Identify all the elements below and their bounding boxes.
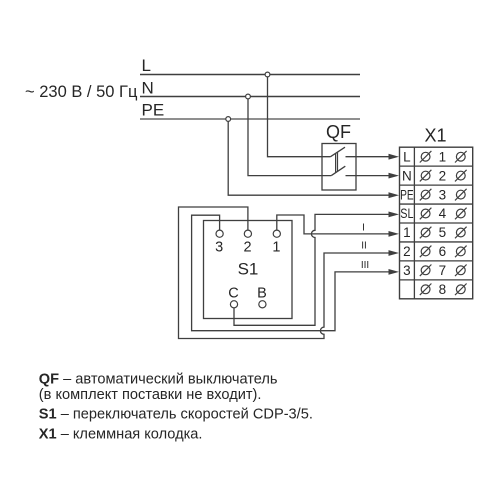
wire from N node to QF pole 2 input xyxy=(248,97,331,176)
legend line QF continuation xyxy=(39,387,262,403)
legend line S1 xyxy=(39,407,313,423)
X1 screw terminals row 3 xyxy=(420,187,467,202)
S1 terminal pin 3 xyxy=(215,230,223,255)
svg-text:B: B xyxy=(257,286,267,302)
svg-text:PE: PE xyxy=(400,187,414,202)
S1 terminal pin B xyxy=(257,286,267,308)
svg-text:L: L xyxy=(142,56,151,75)
wire QF pole 1 output to X1 terminal 1 xyxy=(346,156,391,158)
svg-text:3: 3 xyxy=(215,239,223,255)
svg-text:2: 2 xyxy=(439,168,447,183)
wire PE to X1 terminal 3 xyxy=(228,119,390,195)
switch S1 label xyxy=(238,260,259,279)
svg-text:2: 2 xyxy=(403,244,411,259)
svg-text:5: 5 xyxy=(439,225,447,240)
node on line N xyxy=(246,94,251,99)
svg-text:C: C xyxy=(228,286,238,302)
terminal block X1 frame xyxy=(400,147,473,299)
legend line X1 xyxy=(39,426,203,442)
X1 screw terminals row 8 xyxy=(420,282,467,297)
line N bus wire xyxy=(140,96,360,98)
line L bus wire xyxy=(140,74,360,76)
S1 terminal pin 1 xyxy=(272,230,280,255)
breaker QF linkage bar xyxy=(336,152,338,173)
X1 row labels L N PE SL 1 2 3 xyxy=(400,149,414,278)
X1 screw terminals row 7 xyxy=(420,263,467,278)
node on line PE xyxy=(226,117,231,122)
svg-text:1: 1 xyxy=(272,239,280,255)
svg-text:SL: SL xyxy=(400,206,414,221)
line PE label xyxy=(142,101,165,120)
svg-text:1: 1 xyxy=(439,149,447,164)
arrow into X1 row 1 xyxy=(389,231,400,237)
svg-text:III: III xyxy=(361,260,369,271)
X1 screw terminals row 1 xyxy=(420,149,467,164)
terminal block X1 label xyxy=(424,126,446,146)
svg-text:(в комплект поставки не входит: (в комплект поставки не входит). xyxy=(39,387,262,403)
svg-text:~ 230 В / 50 Гц: ~ 230 В / 50 Гц xyxy=(25,83,138,101)
svg-text:II: II xyxy=(361,241,367,252)
svg-text:N: N xyxy=(402,168,412,183)
wire S1 pin 2 loop to X1 row 2 (speed II) with hop xyxy=(179,207,391,339)
svg-text:S1 – переключатель скоростей C: S1 – переключатель скоростей CDP-3/5. xyxy=(39,407,313,423)
svg-text:4: 4 xyxy=(439,206,447,221)
X1 screw terminals row 2 xyxy=(420,168,467,183)
breaker QF label xyxy=(326,122,351,142)
arrow into X1 row 2 xyxy=(389,250,400,256)
wire from L node to QF pole 1 input xyxy=(268,75,331,157)
net label III xyxy=(361,260,369,271)
line PE bus wire xyxy=(140,118,360,120)
S1 terminal pin 2 xyxy=(243,230,251,255)
breaker QF pole 2 lever xyxy=(331,166,345,175)
X1 screw terminals row 4 xyxy=(420,206,467,221)
svg-text:3: 3 xyxy=(403,263,411,278)
svg-text:7: 7 xyxy=(439,263,447,278)
arrow into X1 row N xyxy=(389,173,400,179)
arrow into X1 row SL xyxy=(389,212,400,218)
wire S1 pin 3 loop to X1 row 3 (speed III) xyxy=(192,215,390,331)
svg-text:8: 8 xyxy=(439,282,447,297)
svg-text:L: L xyxy=(403,149,411,164)
arrow into X1 row PE xyxy=(389,192,400,198)
svg-text:QF – автоматический выключател: QF – автоматический выключатель xyxy=(39,372,278,388)
switch S1 body box xyxy=(204,221,293,319)
node on line L xyxy=(265,72,270,77)
svg-text:I: I xyxy=(362,222,365,233)
net label II xyxy=(361,241,367,252)
line N label xyxy=(142,79,154,98)
arrow into X1 row L xyxy=(389,154,400,160)
X1 screw terminals row 6 xyxy=(420,244,467,259)
line L label xyxy=(142,56,151,75)
svg-text:PE: PE xyxy=(142,101,165,120)
wire S1 pin C to X1 row SL with hop xyxy=(234,214,390,325)
svg-text:X1 – клеммная колодка.: X1 – клеммная колодка. xyxy=(39,426,203,442)
svg-text:N: N xyxy=(142,79,154,98)
net label I xyxy=(362,222,365,233)
wire S1 pin 1 to X1 row 1 (speed I) xyxy=(277,215,390,234)
svg-text:1: 1 xyxy=(403,225,411,240)
svg-text:QF: QF xyxy=(326,122,351,142)
svg-text:S1: S1 xyxy=(238,260,259,279)
arrow into X1 row 3 xyxy=(389,269,400,275)
breaker QF body box xyxy=(322,144,356,191)
svg-text:X1: X1 xyxy=(424,126,446,146)
supply voltage label ~230V/50Hz xyxy=(25,83,138,101)
X1 screw terminals row 5 xyxy=(420,225,467,240)
S1 terminal pin C xyxy=(228,286,238,308)
legend line QF xyxy=(39,372,278,388)
svg-text:6: 6 xyxy=(439,244,447,259)
breaker QF pole 1 lever xyxy=(331,147,346,157)
svg-text:3: 3 xyxy=(439,187,447,202)
svg-text:2: 2 xyxy=(243,239,251,255)
wire QF pole 2 output to X1 terminal 2 xyxy=(346,175,391,177)
